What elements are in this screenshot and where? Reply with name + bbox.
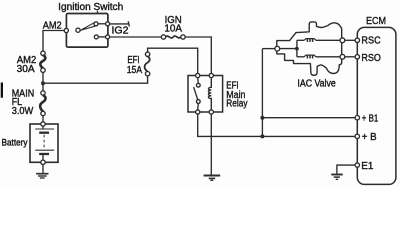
wire +B1 line to ECM bbox=[262, 117, 355, 119]
ground (battery) bbox=[36, 174, 48, 178]
svg-text:10A: 10A bbox=[164, 23, 182, 34]
fuse EFI 15A bbox=[145, 52, 150, 76]
wire stub with continuation tick bbox=[110, 21, 130, 26]
wire relay coil to ground bbox=[210, 114, 212, 174]
svg-text:RSO: RSO bbox=[361, 53, 381, 64]
fuse IGN 10A bbox=[161, 35, 185, 39]
svg-text:ECM: ECM bbox=[366, 16, 386, 27]
fuse AM2 30A bbox=[40, 51, 45, 72]
node +B1 junction bbox=[260, 116, 264, 120]
relay terminal top-right (pin 3) bbox=[209, 73, 213, 77]
relay coil bbox=[208, 78, 211, 110]
wire junction to EFI fuse bbox=[43, 76, 148, 83]
wire fusible link to battery bbox=[42, 116, 44, 122]
wire valve common split bbox=[280, 48, 297, 50]
ECM terminal +B bbox=[355, 134, 359, 138]
ignition switch lower contact bbox=[94, 35, 98, 39]
ECM terminal RSO bbox=[355, 55, 359, 59]
scan artifact bar bbox=[1, 83, 3, 98]
ECM box bbox=[357, 27, 396, 184]
IAC valve body outline bbox=[277, 22, 342, 75]
wire relay switch out to +B bbox=[198, 114, 355, 136]
ignition switch box bbox=[66, 14, 108, 48]
svg-text:+ B1: + B1 bbox=[362, 113, 379, 124]
ignition switch terminal top right bbox=[106, 22, 110, 26]
svg-text:AM2: AM2 bbox=[43, 20, 62, 31]
IAC coil RSC bbox=[297, 39, 340, 42]
wire common to coils bbox=[296, 40, 298, 57]
relay switch contacts bbox=[196, 78, 200, 110]
node +B junction bbox=[260, 134, 264, 138]
wire AM2 fuse to junction bbox=[42, 72, 44, 90]
wire EFI fuse to relay switch bbox=[148, 48, 198, 73]
IAC valve connector terminal bbox=[275, 46, 280, 51]
svg-text:3.0W: 3.0W bbox=[12, 106, 34, 117]
svg-text:Ignition Switch: Ignition Switch bbox=[58, 2, 123, 13]
ground (E1) bbox=[331, 175, 342, 180]
ignition switch terminal AM2 bbox=[64, 28, 68, 32]
relay terminal bottom-right (pin 4) bbox=[209, 110, 213, 114]
label EFI Main Relay bbox=[226, 81, 247, 110]
svg-text:15A: 15A bbox=[127, 65, 143, 76]
IAC coil RSO bbox=[297, 55, 340, 58]
svg-text:IAC Valve: IAC Valve bbox=[297, 78, 336, 89]
wire upper contact to right terminal bbox=[98, 23, 106, 25]
ECM terminal RSC bbox=[355, 38, 359, 42]
svg-text:Relay: Relay bbox=[226, 99, 247, 110]
label EFI 15A bbox=[127, 55, 143, 76]
ground (relay) bbox=[204, 176, 221, 181]
battery negative terminal bbox=[41, 160, 45, 164]
ECM terminal E1 bbox=[355, 163, 359, 167]
battery positive terminal bbox=[41, 122, 45, 126]
ignition switch inner contact bbox=[76, 28, 80, 32]
label: Ignition Switch bbox=[58, 2, 123, 13]
svg-text:RSC: RSC bbox=[361, 35, 380, 46]
label IGN 10A bbox=[164, 15, 182, 35]
wire +B1 branch riser bbox=[261, 49, 263, 137]
svg-text:+ B: + B bbox=[362, 132, 377, 143]
node valve coil common bbox=[295, 47, 299, 51]
wire lower contact to right terminal bbox=[98, 36, 105, 38]
wire IGN fuse to relay coil bbox=[185, 37, 211, 73]
IAC valve terminal RSO side bbox=[340, 54, 345, 59]
fusible link MAIN FL 3.0W bbox=[40, 91, 45, 116]
ECM terminal +B1 bbox=[355, 116, 359, 120]
svg-text:E1: E1 bbox=[361, 161, 374, 172]
label AM2 30A bbox=[17, 55, 37, 75]
svg-text:IG2: IG2 bbox=[112, 25, 129, 36]
EFI main relay box bbox=[188, 76, 223, 113]
wire E1 to ground bbox=[337, 165, 355, 174]
wire IG2 to IGN fuse bbox=[110, 36, 162, 38]
wire RSO link bbox=[345, 56, 355, 58]
label MAIN FL 3.0W bbox=[12, 89, 35, 117]
battery cells bbox=[35, 126, 54, 161]
ignition switch movable lever bbox=[80, 23, 95, 31]
relay switch lever bbox=[194, 87, 198, 100]
relay terminal top-left (pin 1) bbox=[196, 73, 200, 77]
svg-text:30A: 30A bbox=[17, 64, 35, 75]
wire RSC link bbox=[345, 39, 355, 41]
wire AM2 feed to ignition switch bbox=[43, 31, 64, 52]
ignition switch terminal IG2 bbox=[106, 35, 110, 39]
IAC valve terminal RSC side bbox=[340, 38, 345, 43]
relay terminal bottom-left (pin 2) bbox=[196, 110, 200, 114]
wire battery to ground bbox=[42, 165, 44, 173]
wire to IAC valve common bbox=[262, 48, 275, 50]
svg-text:Battery: Battery bbox=[2, 137, 28, 147]
battery box bbox=[30, 124, 58, 162]
ignition switch upper contact bbox=[94, 22, 98, 26]
node battery feed junction bbox=[41, 81, 45, 85]
